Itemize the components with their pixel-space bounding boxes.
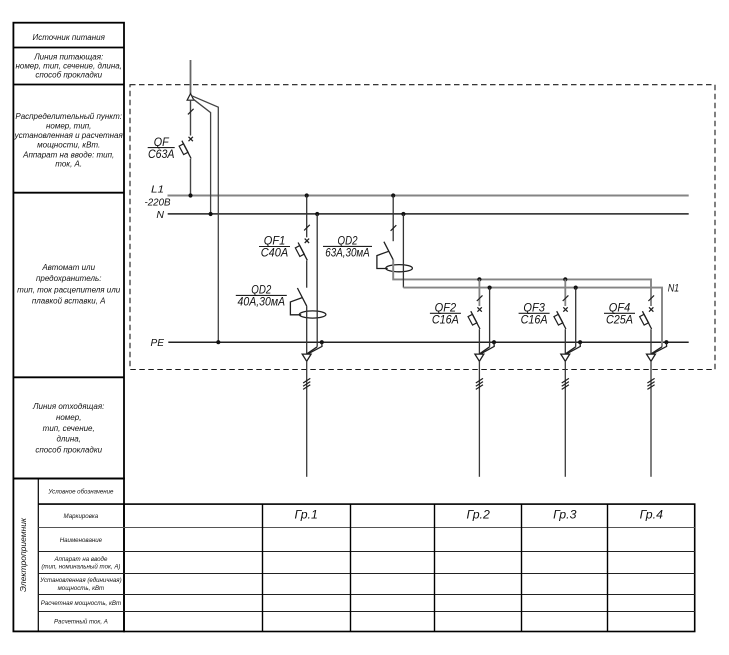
svg-text:Аппарат на вводе: тип,: Аппарат на вводе: тип, bbox=[22, 150, 114, 159]
svg-text:способ прокладки: способ прокладки bbox=[35, 445, 102, 454]
svg-text:C63A: C63A bbox=[148, 147, 175, 161]
svg-text:Гр.1: Гр.1 bbox=[295, 508, 318, 522]
svg-text:Линия отходящая:: Линия отходящая: bbox=[32, 402, 104, 411]
svg-text:Расчетный ток, А: Расчетный ток, А bbox=[54, 619, 108, 626]
svg-text:тип, сечение,: тип, сечение, bbox=[43, 424, 95, 433]
svg-text:тип, ток расцепителя или: тип, ток расцепителя или bbox=[17, 285, 121, 294]
svg-text:Источник питания: Источник питания bbox=[33, 33, 106, 42]
svg-text:номер,: номер, bbox=[56, 413, 81, 422]
svg-text:Наименование: Наименование bbox=[60, 537, 103, 544]
svg-text:мощность, кВт: мощность, кВт bbox=[58, 585, 105, 592]
svg-text:способ прокладки: способ прокладки bbox=[35, 70, 102, 79]
svg-text:плавкой вставки, А: плавкой вставки, А bbox=[32, 296, 106, 305]
svg-text:Установленная (единичная): Установленная (единичная) bbox=[39, 577, 121, 584]
svg-text:Гр.3: Гр.3 bbox=[553, 508, 577, 522]
svg-text:Электроприемник: Электроприемник bbox=[18, 517, 28, 592]
svg-text:-220В: -220В bbox=[145, 196, 171, 208]
svg-text:40А,30мА: 40А,30мА bbox=[238, 295, 286, 309]
svg-text:Маркировка: Маркировка bbox=[64, 513, 99, 520]
svg-text:PE: PE bbox=[151, 337, 165, 349]
svg-text:Гр.2: Гр.2 bbox=[467, 508, 491, 522]
svg-text:длина,: длина, bbox=[56, 435, 80, 444]
svg-text:ток, А.: ток, А. bbox=[55, 159, 82, 168]
svg-text:C25A: C25A bbox=[606, 313, 633, 327]
svg-text:C16A: C16A bbox=[432, 313, 459, 327]
svg-text:C16A: C16A bbox=[521, 313, 548, 327]
svg-text:Распределительный пункт:: Распределительный пункт: bbox=[15, 112, 122, 121]
svg-text:C40A: C40A bbox=[261, 246, 289, 260]
svg-text:Гр.4: Гр.4 bbox=[640, 508, 664, 522]
svg-text:мощности, кВт.: мощности, кВт. bbox=[37, 141, 100, 150]
svg-text:Автомат или: Автомат или bbox=[41, 263, 95, 272]
svg-text:номер, тип, сечение, длина,: номер, тип, сечение, длина, bbox=[15, 61, 121, 70]
svg-text:L1: L1 bbox=[151, 184, 164, 196]
svg-text:N: N bbox=[156, 209, 164, 221]
svg-text:Аппарат на вводе: Аппарат на вводе bbox=[53, 556, 108, 563]
svg-text:предохранитель:: предохранитель: bbox=[36, 274, 101, 283]
svg-text:63А,30мА: 63А,30мА bbox=[325, 246, 370, 260]
svg-text:установленная и расчетная: установленная и расчетная bbox=[14, 131, 124, 140]
svg-text:N1: N1 bbox=[668, 283, 680, 295]
svg-text:номер, тип,: номер, тип, bbox=[46, 122, 91, 131]
svg-text:Линия питающая:: Линия питающая: bbox=[33, 52, 103, 61]
svg-text:Условное обозначение: Условное обозначение bbox=[47, 489, 114, 496]
svg-text:Расчетная мощность, кВт: Расчетная мощность, кВт bbox=[41, 600, 121, 607]
svg-text:(тип, номинальный ток, А): (тип, номинальный ток, А) bbox=[41, 564, 120, 571]
